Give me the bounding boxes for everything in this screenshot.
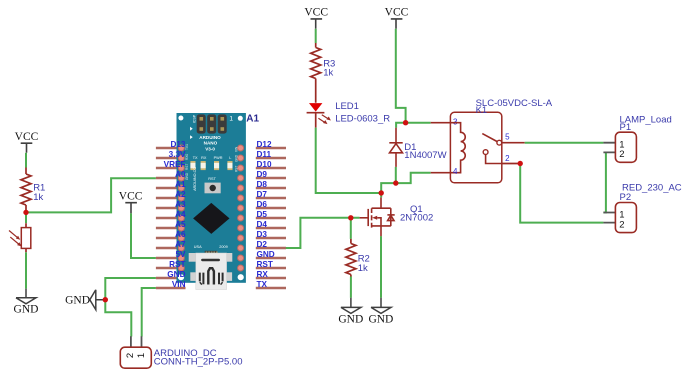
mounting holes <box>178 116 183 121</box>
svg-text:VCC: VCC <box>385 6 409 18</box>
node A junction D1 <box>393 180 398 185</box>
svg-text:A0: A0 <box>175 170 186 179</box>
pin labels left <box>164 140 186 289</box>
LED LED1 <box>307 101 391 128</box>
connector P3 ARDUINO_DC <box>120 336 242 368</box>
svg-text:2: 2 <box>619 219 624 230</box>
svg-text:1: 1 <box>136 353 147 358</box>
svg-text:A1: A1 <box>246 114 259 125</box>
wire P1 pin2 to P2 pin1 <box>603 152 606 212</box>
svg-text:D8: D8 <box>257 180 268 189</box>
resistor R2 <box>346 239 370 277</box>
svg-text:D5: D5 <box>257 210 268 219</box>
node junction gate/R2 <box>348 215 353 220</box>
VCC flag net VCC (near Arduino 5V) <box>119 190 143 213</box>
svg-text:4: 4 <box>453 167 458 176</box>
svg-text:1k: 1k <box>323 68 333 79</box>
svg-text:GND: GND <box>14 304 39 316</box>
VCC flag net VCC (above relay) <box>385 6 409 28</box>
svg-text:D13: D13 <box>170 140 185 149</box>
node junction R1/LDR/A0 <box>23 210 28 215</box>
resistor R3 <box>311 43 336 103</box>
svg-text:2N7002: 2N7002 <box>400 213 433 224</box>
node B junction drain <box>379 190 384 195</box>
svg-text:LED1: LED1 <box>335 101 359 112</box>
wire node A to relay pin 4 <box>396 173 431 183</box>
ICSP header <box>197 114 206 133</box>
svg-text:RX: RX <box>201 156 207 160</box>
wire node B to node A <box>381 183 396 193</box>
wire VCC to R3 <box>315 29 317 43</box>
node C junction D1/relay <box>403 120 408 125</box>
svg-text:3: 3 <box>453 117 458 126</box>
svg-text:RX: RX <box>257 270 269 279</box>
wire node C to D1 cathode <box>396 123 406 128</box>
svg-text:A1: A1 <box>175 180 186 189</box>
wire relay pin2 to P2 pin2 <box>520 164 603 223</box>
svg-text:NANO: NANO <box>204 141 218 146</box>
tiny silkscreen pin names <box>185 144 239 180</box>
svg-text:D3: D3 <box>257 230 268 239</box>
wire node B to Q1 drain <box>380 193 382 197</box>
module A1 Arduino Nano pins right <box>256 148 286 288</box>
svg-text:VCC: VCC <box>15 131 39 143</box>
wire VCC to R1 <box>25 153 27 168</box>
svg-text:ICSP: ICSP <box>192 114 196 123</box>
svg-text:5: 5 <box>505 133 510 142</box>
svg-text:A4: A4 <box>175 210 186 219</box>
svg-text:GND: GND <box>338 314 363 326</box>
svg-text:1N4007W: 1N4007W <box>404 150 446 161</box>
svg-text:D2: D2 <box>257 240 268 249</box>
node junction pin2 <box>518 161 523 166</box>
svg-text:2: 2 <box>125 353 136 358</box>
svg-text:A2: A2 <box>175 190 186 199</box>
wire relay pin5 to P1 pin1 <box>525 142 604 144</box>
wire D2 to Q1 gate <box>286 218 360 248</box>
relay K1 SLC-05VDC-SL-A <box>431 98 553 183</box>
svg-text:P2: P2 <box>620 192 632 203</box>
svg-text:2009: 2009 <box>219 245 227 249</box>
svg-text:GND: GND <box>368 314 393 326</box>
svg-text:TX: TX <box>257 280 268 289</box>
svg-text:K1: K1 <box>476 105 488 116</box>
svg-text:D4: D4 <box>257 220 268 229</box>
module A1 Arduino Nano body <box>177 113 246 290</box>
wire GND pin to DC connector pin2 <box>105 278 156 337</box>
svg-text:V3-0: V3-0 <box>205 147 215 152</box>
chip diamond <box>193 203 229 234</box>
svg-text:TX1: TX1 <box>185 144 189 150</box>
svg-text:USA: USA <box>194 245 202 249</box>
svg-text:GND: GND <box>167 270 185 279</box>
diode D1 1N4007W <box>389 128 402 167</box>
svg-text:VIN: VIN <box>172 280 186 289</box>
wire junction to Arduino A0 <box>26 178 156 212</box>
svg-text:5V: 5V <box>175 250 186 259</box>
svg-text:D11: D11 <box>257 150 272 159</box>
pin 3 lead <box>431 122 451 124</box>
svg-text:CONN-TH_2P-P5.00: CONN-TH_2P-P5.00 <box>154 357 243 368</box>
svg-text:2: 2 <box>619 149 624 160</box>
svg-text:2: 2 <box>505 154 510 163</box>
svg-text:D9: D9 <box>257 170 268 179</box>
wire VCC to node C <box>396 29 406 123</box>
ground GND (under R2) <box>338 298 363 326</box>
module A1 Arduino Nano pins left <box>156 148 186 288</box>
svg-text:RST: RST <box>208 177 216 181</box>
photoresistor LDR <box>9 223 31 252</box>
svg-text:TX: TX <box>193 156 198 160</box>
wire junction to R2 <box>350 218 352 239</box>
svg-text:GND: GND <box>235 154 239 162</box>
USB connector <box>189 253 196 262</box>
coil <box>450 123 465 173</box>
svg-text:RST: RST <box>235 166 239 172</box>
svg-text:A5: A5 <box>175 220 186 229</box>
ground GND (under LDR) <box>14 289 39 316</box>
svg-text:RST: RST <box>257 260 273 269</box>
VCC flag net VCC (above R3) <box>304 6 328 28</box>
svg-text:D6: D6 <box>257 200 268 209</box>
svg-text:1k: 1k <box>358 263 368 274</box>
svg-text:ARDUINO: ARDUINO <box>199 135 221 140</box>
ground GND (sideways, near Arduino) <box>65 290 105 310</box>
wire junction to LDR <box>25 212 27 223</box>
svg-text:VCC: VCC <box>119 190 143 202</box>
connector P2 RED_230_AC <box>603 183 681 233</box>
svg-text:D12: D12 <box>257 140 272 149</box>
svg-text:1: 1 <box>229 116 233 123</box>
svg-text:GND: GND <box>65 294 90 306</box>
contact blade and poles <box>482 134 497 142</box>
usb trident <box>200 268 223 284</box>
svg-text:A7: A7 <box>175 240 186 249</box>
wire VCC to 5V pin <box>131 213 156 258</box>
svg-text:D7: D7 <box>257 190 268 199</box>
svg-text:L: L <box>229 156 231 160</box>
wire R2 to GND <box>350 277 352 298</box>
wire Q1 source to GND <box>380 236 382 298</box>
svg-text:3.3V: 3.3V <box>169 150 186 159</box>
wire LED to node B <box>316 128 382 193</box>
svg-text:GND: GND <box>257 250 275 259</box>
wire VIN pin to DC connector pin1 <box>142 288 156 337</box>
svg-text:VCC: VCC <box>304 6 328 18</box>
svg-text:D10: D10 <box>257 160 272 169</box>
svg-text:VIN: VIN <box>235 146 239 152</box>
pin 2 lead <box>502 163 519 165</box>
pin labels right <box>257 140 275 289</box>
node junction GND flag <box>103 297 108 302</box>
svg-text:RX0: RX0 <box>185 154 189 160</box>
pin 4 lead <box>431 172 451 174</box>
pin 5 lead <box>502 142 525 144</box>
resistor R1 <box>21 168 45 213</box>
svg-text:A3: A3 <box>175 200 186 209</box>
svg-text:RST: RST <box>185 164 189 170</box>
svg-text:PWR: PWR <box>214 156 223 160</box>
VCC flag net VCC (top-left) <box>15 131 39 153</box>
svg-text:RST: RST <box>169 260 185 269</box>
wire node A to D1 anode <box>395 167 397 183</box>
transistor Q1 2N7002 <box>360 197 395 236</box>
pads right <box>238 145 244 271</box>
wire node C to relay pin 3 <box>406 122 431 124</box>
pads left <box>178 145 184 271</box>
svg-text:ARDUINO.CC: ARDUINO.CC <box>193 167 197 191</box>
svg-text:GND: GND <box>185 172 189 180</box>
connector P1 LAMP_Load <box>603 115 671 163</box>
svg-text:LED-0603_R: LED-0603_R <box>335 113 390 124</box>
svg-text:A6: A6 <box>175 230 186 239</box>
wire LDR to GND <box>25 252 27 288</box>
ground GND (under Q1) <box>368 298 393 326</box>
svg-text:1k: 1k <box>33 192 43 203</box>
svg-text:VREF: VREF <box>164 160 186 169</box>
